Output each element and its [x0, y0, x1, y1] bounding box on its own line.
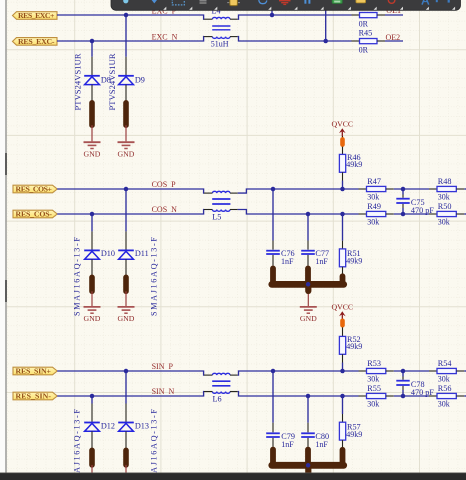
resistor R45 [352, 29, 386, 55]
wire D9 branch [125, 15, 127, 57]
ground symbol under D9 [118, 142, 135, 158]
wire R53 to C78 [394, 370, 429, 372]
left panel divider [5, 0, 7, 480]
junction C80 on SIN_N [306, 394, 311, 399]
power port QVCC (SIN) [331, 303, 353, 320]
svg-text:30k: 30k [367, 192, 379, 201]
ground symbol under D8 [84, 142, 101, 158]
resistor R52 [339, 335, 362, 355]
junction C75 on COS_P [401, 187, 406, 192]
toolbar icon: sheet symbol (green) [332, 0, 342, 3]
svg-text:R50: R50 [438, 202, 452, 211]
svg-text:SIN N: SIN N [152, 387, 175, 396]
svg-text:EXC N: EXC N [152, 33, 178, 42]
inductor L4 common-mode choke [204, 7, 238, 49]
junction C78 on SIN_N [401, 394, 406, 399]
thick GND wire under D11 [123, 277, 129, 291]
svg-text:L5: L5 [212, 213, 221, 222]
svg-text:RES_COS-: RES_COS- [16, 210, 53, 219]
svg-text:1nF: 1nF [315, 257, 328, 266]
svg-text:0R: 0R [359, 19, 369, 28]
thick QVCC wire (orange, SIN) [342, 319, 344, 328]
svg-text:R47: R47 [367, 177, 381, 186]
pin R52 bottom [342, 354, 344, 362]
resistor R53 [359, 359, 394, 383]
svg-text:1nF: 1nF [315, 440, 328, 449]
diode D12 (TVS) [84, 422, 115, 432]
GND lead D12 [91, 465, 93, 474]
junction on GND bus (SIN) [306, 463, 311, 468]
toolbar dropdown corner 2 [189, 7, 192, 10]
wire EXC_N to OE2 [385, 40, 403, 42]
toolbar icon: small blue mark 2 [448, 0, 450, 3]
pin D8 top [91, 57, 93, 75]
svg-text:GND: GND [118, 314, 135, 323]
svg-text:PTVS24VS1UR: PTVS24VS1UR [73, 53, 83, 110]
svg-text:1nF: 1nF [281, 440, 294, 449]
wire EXC_P to OE1 [385, 14, 403, 16]
bottom dark bar [0, 473, 466, 480]
svg-text:RES_SIN-: RES_SIN- [16, 392, 52, 401]
GND lead D11 [125, 291, 127, 306]
GND lead D8 [91, 125, 93, 141]
pin D12 bottom [91, 431, 93, 450]
floating toolbar (top) [111, 0, 461, 10]
toolbar icon: sliders [200, 1, 207, 3]
resistor R46 [339, 153, 362, 172]
junction D11 on COS_P [124, 187, 129, 192]
junction C79 on SIN_P [271, 369, 276, 374]
svg-text:R45: R45 [359, 29, 373, 38]
wire EXC_N left [57, 37, 204, 41]
wire COS_P left [57, 189, 204, 193]
wire R49 to C75 [394, 213, 429, 215]
toolbar icon: arc (blue) [259, 0, 267, 4]
thick GND wire under D13 [123, 450, 129, 465]
svg-text:GND: GND [84, 314, 101, 323]
svg-text:GND: GND [118, 149, 135, 158]
svg-text:D9: D9 [135, 76, 145, 85]
svg-text:R55: R55 [367, 384, 381, 393]
capacitor C77 [301, 241, 329, 266]
resistor R55 [359, 384, 394, 408]
svg-text:30k: 30k [438, 192, 450, 201]
pin R51 top [342, 241, 344, 249]
junction R51 on COS_N [340, 212, 345, 217]
wire EXC_N right [238, 37, 352, 41]
wire EXC_P left [57, 15, 204, 19]
pin R51 bottom [342, 267, 344, 277]
thick GND wire under D12 [89, 450, 95, 465]
svg-text:COS P: COS P [152, 180, 177, 189]
toolbar dropdown corner 8 [374, 7, 377, 10]
toolbar dropdown corner 4 [268, 7, 271, 10]
GND lead (COS bus) [307, 294, 309, 306]
wire COS_N left [57, 210, 204, 215]
junction D13 on SIN_P [124, 369, 129, 374]
junction R57 on SIN_N [340, 394, 345, 399]
toolbar dropdown corner 11 [452, 7, 455, 10]
GND lead D13 [125, 465, 127, 474]
junction D9 on EXC_P [124, 13, 129, 18]
thick GND bus (SIN) [272, 450, 344, 479]
svg-text:30k: 30k [367, 374, 379, 383]
svg-text:RES_COS+: RES_COS+ [16, 185, 53, 194]
wire D13 branch [125, 371, 127, 404]
inductor L5 common-mode choke [204, 191, 238, 221]
pin R46 top [342, 147, 344, 155]
toolbar icon: cursor (blue dot) [123, 0, 128, 3]
junction C76 on COS_P [271, 187, 276, 192]
pin D9 top [125, 57, 127, 75]
capacitor C76 [266, 241, 294, 266]
wire C80 branch [307, 396, 309, 423]
svg-text:30k: 30k [438, 217, 450, 226]
wire R57 branch [342, 396, 344, 414]
ground symbol under D10 [84, 307, 101, 323]
svg-text:49k9: 49k9 [346, 342, 362, 351]
pin D10 bottom [91, 259, 93, 277]
toolbar icon: red stack [279, 0, 291, 5]
svg-text:D13: D13 [135, 422, 149, 431]
pin R57 bottom [342, 440, 344, 449]
svg-text:30k: 30k [438, 374, 450, 383]
svg-text:RES_SIN+: RES_SIN+ [16, 367, 52, 376]
pin R57 top [342, 414, 344, 422]
ground symbol (COS bus) [300, 307, 317, 323]
svg-text:COS N: COS N [152, 205, 178, 214]
wire SIN_P right [238, 371, 359, 375]
resistor R54 [429, 359, 464, 383]
svg-text:RES_EXC-: RES_EXC- [18, 37, 55, 46]
toolbar icon: sheet entry (yellow) [356, 0, 366, 3]
GND lead D10 [91, 291, 93, 306]
pin D12 top [91, 404, 93, 422]
pin R46 bottom [342, 172, 344, 180]
wire stub up at x=272 [271, 10, 273, 15]
power port QVCC (COS) [331, 119, 353, 136]
junction D12 on SIN_N [90, 394, 95, 399]
junction on EXC_P at x=272 [270, 13, 275, 18]
pin D13 top [125, 404, 127, 422]
port RES_EXC+ [13, 11, 58, 20]
left panel divider dark segment 2 [5, 280, 7, 302]
port RES_SIN- [13, 392, 57, 401]
toolbar dropdown corner 10 [426, 7, 429, 10]
svg-text:GND: GND [84, 149, 101, 158]
toolbar dropdown corner 5 [294, 7, 297, 10]
junction D8 on EXC_N [90, 39, 95, 44]
port RES_COS+ [13, 185, 57, 194]
svg-text:L6: L6 [213, 395, 222, 404]
toolbar dropdown corner 3 [214, 7, 217, 10]
svg-text:R53: R53 [367, 359, 381, 368]
thick GND wire under D10 [89, 277, 95, 291]
wire COS_P right [238, 189, 359, 193]
wire SIN_P left [57, 371, 204, 375]
wire D11 branch [125, 189, 127, 231]
wire C77 branch [307, 214, 309, 241]
pin D13 bottom [125, 431, 127, 450]
svg-text:1nF: 1nF [281, 257, 294, 266]
svg-text:SMAJ16AQ-13-F: SMAJ16AQ-13-F [73, 237, 82, 316]
svg-text:PTVS24VS1UR: PTVS24VS1UR [107, 53, 117, 110]
toolbar dropdown corner 6 [321, 7, 324, 10]
capacitor C79 [266, 423, 295, 449]
diode D11 (TVS) [118, 249, 148, 259]
junction C75 on COS_N [401, 212, 406, 217]
toolbar icon: text A (blue) [422, 0, 429, 5]
svg-text:GND: GND [300, 314, 317, 323]
svg-text:49k9: 49k9 [346, 257, 362, 266]
wire D12 branch [91, 396, 93, 404]
svg-text:QVCC: QVCC [331, 119, 353, 128]
toolbar icon: part (yellow) [227, 0, 240, 6]
ground symbol under D11 [118, 307, 135, 323]
toolbar dropdown corner 7 [348, 7, 351, 10]
svg-text:D11: D11 [135, 249, 149, 258]
diode D9 (TVS) [118, 76, 145, 85]
pin D9 bottom [125, 85, 127, 103]
junction on GND bus [306, 282, 311, 287]
capacitor C80 [301, 423, 329, 449]
wire R51 branch [342, 214, 344, 241]
port RES_COS- [13, 210, 57, 219]
wire R46 to COS_P [342, 181, 344, 190]
svg-text:SIN P: SIN P [152, 362, 174, 371]
wire COS_N right [238, 210, 359, 215]
wire R55 to C78 [394, 395, 429, 397]
pin D8 bottom [91, 85, 93, 103]
svg-text:RES_EXC+: RES_EXC+ [18, 11, 55, 20]
wire R47 to C75 [394, 188, 429, 190]
capacitor C75 [396, 189, 434, 215]
svg-text:49k9: 49k9 [346, 160, 362, 169]
wire C79 branch [272, 371, 274, 423]
toolbar dropdown corner 1 [163, 7, 166, 10]
wire D10 branch [91, 214, 93, 231]
resistor R48 [429, 177, 464, 201]
toolbar icon: selection rect [172, 0, 184, 5]
thick GND bus (COS) [272, 268, 344, 291]
toolbar icon: down arrow [152, 0, 157, 3]
svg-text:30k: 30k [438, 399, 450, 408]
svg-text:30k: 30k [367, 399, 379, 408]
toolbar icon: columns [304, 0, 310, 4]
svg-text:QVCC: QVCC [331, 303, 353, 312]
svg-text:OE2: OE2 [386, 33, 401, 42]
junction R46 on COS_P [340, 187, 345, 192]
junction R52 on SIN_P [340, 369, 345, 374]
wire SIN_N right [238, 392, 359, 397]
resistor R49 [359, 202, 394, 226]
wire vertical from top to EXC_N at x=325.7 [325, 10, 327, 41]
wire EXC_P right [238, 15, 352, 19]
pin D11 bottom [125, 259, 127, 277]
pin R52 top [342, 327, 344, 336]
left panel strip [0, 0, 5, 480]
svg-text:R48: R48 [438, 177, 452, 186]
svg-text:R56: R56 [438, 384, 452, 393]
GND lead D9 [125, 125, 127, 141]
wire C76 branch [272, 189, 274, 241]
junction C78 on SIN_P [401, 369, 406, 374]
diode D8 (TVS) [84, 76, 111, 85]
thick GND wire under D9 [123, 103, 129, 125]
resistor R44 [352, 13, 386, 29]
toolbar icon: small blue mark 1 [436, 0, 438, 2]
pin D10 top [91, 231, 93, 249]
port RES_SIN+ [13, 367, 57, 376]
pin D11 top [125, 231, 127, 249]
wire COS_N to edge [464, 213, 466, 215]
port RES_EXC- [13, 37, 58, 46]
svg-text:SMAJ16AQ-13-F: SMAJ16AQ-13-F [150, 237, 159, 316]
toolbar dropdown corner 9 [400, 7, 403, 10]
resistor R47 [359, 177, 394, 201]
svg-text:R49: R49 [367, 202, 381, 211]
junction on EXC_N at x=325.7 [323, 39, 328, 44]
toolbar icon: no-ERC (red ring) [388, 0, 395, 3]
svg-text:51uH: 51uH [211, 40, 229, 49]
wire COS_P to edge [464, 188, 466, 190]
svg-text:D12: D12 [101, 422, 115, 431]
svg-text:30k: 30k [367, 217, 379, 226]
resistor R57 [339, 422, 362, 440]
wire SIN_P to edge [464, 370, 466, 372]
left panel divider dark segment 1 [5, 153, 7, 175]
thick GND wire under D8 [89, 103, 95, 125]
junction D10 on COS_N [90, 212, 95, 217]
svg-text:D10: D10 [101, 249, 115, 258]
diode D10 (TVS) [84, 249, 115, 259]
svg-text:49k9: 49k9 [346, 430, 362, 439]
resistor R50 [429, 202, 464, 226]
wire R52 to SIN_P [342, 363, 344, 372]
wire D8 branch [91, 41, 93, 57]
svg-text:R54: R54 [438, 359, 452, 368]
junction C77 on COS_N [306, 212, 311, 217]
inductor L6 common-mode choke [204, 373, 238, 403]
thick QVCC wire (orange) [342, 136, 344, 148]
wire SIN_N to edge [464, 395, 466, 397]
wire SIN_N left [57, 392, 204, 397]
diode D13 (TVS) [118, 422, 149, 432]
svg-text:0R: 0R [359, 45, 369, 54]
resistor R56 [429, 384, 464, 408]
capacitor C78 [396, 371, 434, 397]
resistor R51 [339, 249, 362, 267]
